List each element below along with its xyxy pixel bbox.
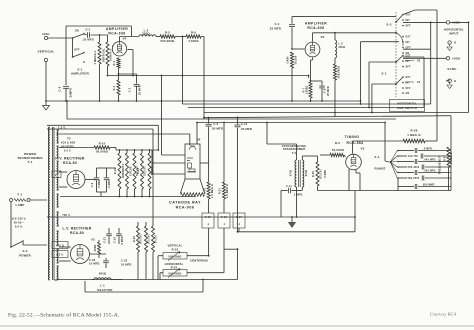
svg-text:R-10: R-10 [99, 141, 106, 145]
svg-text:R-32: R-32 [172, 248, 179, 252]
svg-text:.05 MFD: .05 MFD [211, 127, 223, 131]
svg-text:S-5: S-5 [22, 249, 27, 253]
svg-text:RANGE: RANGE [374, 167, 385, 171]
svg-text:C-19: C-19 [113, 237, 116, 243]
svg-text:C-21: C-21 [103, 237, 106, 243]
svg-text:.5 MFD: .5 MFD [325, 169, 327, 178]
svg-text:100-750: 100-750 [408, 155, 419, 158]
svg-text:Fig. 22-52.—Schematic of RCA M: Fig. 22-52.—Schematic of RCA Model 155-A… [8, 312, 120, 319]
svg-text:800Ω: 800Ω [306, 170, 308, 176]
svg-text:C-6: C-6 [91, 182, 94, 187]
capacitor C-4 [289, 24, 295, 26]
svg-text:.25MFD: .25MFD [69, 88, 73, 98]
svg-text:1,500Ω: 1,500Ω [306, 85, 309, 94]
svg-text:V1: V1 [55, 173, 59, 177]
svg-text:V3: V3 [360, 147, 364, 151]
svg-text:T-1: T-1 [28, 160, 33, 164]
svg-text:690Ω: 690Ω [94, 245, 97, 252]
bus wire y104 [183, 103, 431, 105]
svg-text:500,000Ω: 500,000Ω [168, 271, 181, 275]
svg-text:RCA-80: RCA-80 [63, 161, 77, 165]
resistor R-4 [117, 80, 120, 95]
svg-text:16 MFD.: 16 MFD. [121, 262, 132, 266]
bus wire y112 [204, 112, 469, 114]
svg-text:500Ω: 500Ω [291, 170, 293, 176]
svg-text:750 V.: 750 V. [62, 213, 71, 217]
svg-text:RCA-80: RCA-80 [70, 231, 84, 235]
wire V5 cathode [312, 58, 314, 61]
svg-text:CENTERING: CENTERING [190, 259, 208, 263]
resistor R-17 divider [149, 150, 151, 153]
wire heater bus join [308, 75, 310, 77]
svg-text:250,000: 250,000 [144, 166, 146, 176]
bus wire y122 [197, 122, 385, 124]
wires HV rectifier [59, 171, 67, 173]
svg-text:C-10: C-10 [241, 122, 248, 126]
svg-text:8 MFD.: 8 MFD. [121, 235, 124, 244]
svg-text:AMPLIFIER: AMPLIFIER [305, 22, 327, 26]
svg-text:G: G [454, 41, 456, 45]
svg-text:500,000: 500,000 [320, 169, 322, 179]
svg-text:1.5 V.: 1.5 V. [58, 125, 66, 129]
inductor L-1 reactor [92, 279, 94, 281]
wire heater bus y75 [133, 75, 309, 77]
resistor R-22 [152, 222, 154, 226]
wires T-2 [266, 123, 268, 145]
ground solid middle [291, 217, 293, 222]
svg-text:L-1: L-1 [100, 284, 105, 288]
svg-text:.05 MFD: .05 MFD [240, 127, 252, 131]
resistor R-7 cathode [309, 82, 312, 98]
wire V5 plate to S-2 [312, 33, 314, 42]
wire right vertical input join [468, 22, 470, 112]
svg-text:C-16: C-16 [221, 216, 228, 219]
svg-text:POWER: POWER [19, 254, 32, 258]
svg-text:R-30: R-30 [203, 188, 206, 194]
svg-text:6C6 & 6D6: 6C6 & 6D6 [61, 142, 76, 145]
cap bank bottom bus [398, 190, 451, 192]
capacitor C-5 cathode bypass [310, 80, 312, 82]
wire plate chain down [201, 36, 204, 38]
crt grid electrodes [187, 157, 193, 159]
svg-text:25 MFD: 25 MFD [139, 85, 142, 95]
wire S-3 lower pivot to bus [372, 83, 396, 85]
svg-text:.1 MFD.: .1 MFD. [293, 193, 303, 196]
svg-text:T-2: T-2 [292, 151, 297, 155]
svg-text:1 MEG Ω: 1 MEG Ω [407, 133, 421, 137]
svg-text:6.3 V.: 6.3 V. [64, 150, 72, 153]
capacitor C-15 box [202, 213, 214, 228]
wire crt top lead [196, 123, 198, 145]
potentiometer R-6 horizontal gain [291, 52, 294, 68]
bus wire y125 left [47, 124, 158, 126]
capacitor C-11 [288, 188, 290, 194]
svg-text:500,000: 500,000 [149, 234, 151, 244]
tube V2 LV rectifier [71, 245, 90, 264]
wire bottom return [238, 231, 356, 233]
svg-text:HORIZONTAL: HORIZONTAL [397, 101, 417, 105]
svg-text:S-2: S-2 [386, 23, 391, 27]
wire 1.5V tap to CRT top cap [57, 133, 190, 135]
svg-text:LAMP: LAMP [16, 203, 25, 207]
svg-text:C-20: C-20 [89, 258, 96, 262]
vertical riser x161 [161, 76, 163, 156]
svg-text:L.V. RECTIFIER: L.V. RECTIFIER [63, 227, 92, 231]
wire C-15 column down to centering [208, 228, 210, 256]
terminal HORIZONTAL INPUT high [446, 21, 449, 24]
svg-text:R-26: R-26 [410, 129, 417, 133]
svg-text:INT: INT [406, 20, 411, 22]
capacitor C-7 filter [106, 168, 108, 177]
svg-text:600Ω: 600Ω [99, 272, 106, 276]
capacitor C-3 cathode bypass [118, 73, 120, 75]
capacitor C-9 coupling to CRT plate [208, 118, 210, 124]
capacitor C-16 box [218, 213, 230, 228]
svg-text:250Ω: 250Ω [339, 46, 346, 49]
capacitor C-22 16MFD [105, 258, 107, 260]
wire V3 plate up [352, 141, 354, 154]
bus wire y107 [188, 107, 424, 109]
svg-text:REACTOR: REACTOR [97, 288, 112, 292]
wire V4 plate [119, 37, 121, 42]
svg-text:.003 MFD.: .003 MFD. [424, 170, 437, 173]
svg-text:F-1: F-1 [18, 193, 23, 197]
switch S-5 power [10, 202, 12, 247]
svg-text:G: G [454, 79, 456, 83]
potentiometer R-13 focus [134, 150, 136, 153]
resistor R-8 plate load [334, 58, 336, 64]
svg-text:50,000Ω: 50,000Ω [96, 150, 109, 154]
capacitor C-1 [84, 34, 87, 35]
bus wire y119 [67, 118, 396, 120]
bus wire y116 sloped [204, 116, 451, 118]
svg-text:V6: V6 [196, 138, 200, 142]
svg-text:.5 MFD: .5 MFD [98, 179, 101, 188]
svg-text:FREQUENCY: FREQUENCY [438, 156, 442, 174]
svg-text:HORIZONTAL: HORIZONTAL [165, 262, 184, 266]
svg-text:.1: .1 [238, 223, 241, 226]
svg-text:.1: .1 [207, 223, 210, 226]
svg-text:0.6 A.: 0.6 A. [15, 225, 23, 229]
svg-text:V5: V5 [320, 35, 324, 39]
svg-text:.5 MFD: .5 MFD [108, 179, 111, 188]
resistor R-16 divider [141, 150, 143, 153]
svg-text:INT: INT [406, 83, 411, 85]
svg-text:R-9: R-9 [335, 141, 340, 145]
svg-text:R-20: R-20 [133, 236, 136, 242]
svg-text:16 MFD.: 16 MFD. [89, 262, 100, 266]
inductor L-3 [335, 40, 337, 58]
svg-text:TIMING: TIMING [345, 135, 360, 139]
wire S-2 ext to bus [403, 10, 415, 15]
wire V4 right pin to heater bus [128, 49, 134, 51]
svg-text:EXT: EXT [406, 37, 411, 39]
timing capacitor row .003 [398, 172, 414, 174]
svg-text:RCA-906: RCA-906 [176, 206, 195, 210]
svg-text:INTENSITY: INTENSITY [122, 164, 125, 178]
svg-text:V2: V2 [91, 238, 95, 242]
svg-text:R-33: R-33 [171, 266, 178, 270]
svg-text:V3: V3 [417, 82, 421, 84]
svg-text:AMPLIFIER: AMPLIFIER [106, 27, 128, 31]
svg-text:H3: H3 [417, 61, 421, 63]
svg-text:HIGH: HIGH [453, 57, 461, 61]
svg-text:1.5 MEG Ω: 1.5 MEG Ω [211, 184, 214, 198]
trimmer row 580-2500 [398, 177, 407, 179]
svg-text:850 MMF.: 850 MMF. [423, 184, 435, 187]
svg-text:GAIN R-2: GAIN R-2 [109, 48, 112, 61]
wire S-2 int to HIGH terminal [403, 21, 446, 23]
svg-text:CATHODE RAY: CATHODE RAY [169, 201, 201, 205]
svg-text:ON: ON [75, 30, 79, 33]
svg-text:VERTICAL: VERTICAL [102, 48, 105, 62]
wire C-16 column down [223, 228, 225, 249]
svg-text:RCA-606: RCA-606 [307, 26, 324, 30]
svg-text:R-3: R-3 [113, 60, 116, 65]
svg-text:110-130 V.: 110-130 V. [12, 217, 27, 221]
svg-text:FOCUS: FOCUS [129, 166, 132, 176]
svg-text:.5 MFD.: .5 MFD. [423, 148, 433, 151]
svg-text:V4: V4 [122, 37, 126, 41]
svg-text:RCA-606: RCA-606 [108, 32, 125, 36]
label box HORIZONTAL AMP SWITCH [390, 100, 425, 112]
svg-text:2.5 V.: 2.5 V. [56, 254, 64, 257]
resistor R-31 deflection return [223, 123, 225, 183]
svg-text:C-22: C-22 [121, 259, 128, 263]
resistor R-1 grid leak [99, 35, 101, 42]
capacitor C-2 [63, 85, 69, 87]
switch S-2 horizontal input selector [395, 12, 397, 97]
svg-text:GAIN: GAIN [287, 56, 290, 63]
wire S-2 lower to right [403, 48, 431, 50]
svg-text:R-6: R-6 [191, 31, 196, 35]
svg-text:C-17: C-17 [236, 216, 243, 219]
wire bus to range switch [384, 123, 386, 162]
svg-text:R-11: R-11 [114, 168, 117, 174]
svg-text:R-1: R-1 [93, 50, 97, 55]
wire input from S-2 to C-4 [292, 16, 396, 18]
resistor R-25 [317, 156, 319, 162]
svg-text:50,000: 50,000 [152, 166, 154, 175]
svg-text:C-11: C-11 [286, 185, 292, 188]
divider top bus [116, 149, 158, 151]
svg-text:S-1: S-1 [381, 72, 386, 76]
svg-text:50,000: 50,000 [156, 234, 158, 243]
svg-text:EXT: EXT [406, 56, 411, 58]
svg-text:TO: TO [67, 138, 71, 141]
timing capacitor row 850 MMF [398, 186, 414, 188]
svg-text:1 MEG Ω: 1 MEG Ω [450, 152, 453, 163]
wire L-3 top [334, 33, 336, 40]
resistor R-21 [145, 222, 147, 226]
svg-text:R-16: R-16 [137, 168, 140, 174]
svg-text:1 MEG: 1 MEG [93, 55, 97, 64]
svg-text:INT: INT [406, 42, 411, 44]
capacitor C-6 filter [96, 168, 98, 177]
svg-text:C-4: C-4 [274, 22, 279, 26]
svg-text:SYNC.: SYNC. [447, 67, 457, 71]
crt screen zigzag [181, 193, 205, 197]
wire S-3 pivot to bus [369, 61, 396, 63]
wire right vertical ext-sync [436, 10, 438, 141]
svg-text:R-27: R-27 [443, 155, 446, 161]
terminal vertical input ground [44, 58, 47, 61]
trimmer row 100-750 [398, 155, 407, 157]
svg-text:HEATERS: HEATERS [61, 146, 74, 149]
lower bus y217 [47, 216, 355, 218]
svg-text:.1: .1 [223, 223, 226, 226]
svg-text:50-60 ~: 50-60 ~ [14, 221, 25, 225]
transformer T-2 [295, 160, 297, 187]
wire sync high terminal [403, 57, 446, 59]
junction to lower bus [182, 36, 184, 38]
label V1 box [52, 171, 61, 178]
resistor R-9 grid [330, 153, 344, 156]
svg-text:500,000Ω: 500,000Ω [161, 39, 176, 43]
potentiometer R-12 intensity [126, 150, 128, 153]
wire C-17 stub [238, 228, 240, 232]
wire timing bottom [349, 190, 398, 192]
capacitor C-10 coupling horizontal [235, 124, 241, 126]
trimmer row 500-4000 [398, 166, 407, 168]
resistor R-3 cathode bias [118, 57, 120, 60]
power transformer T-1 secondaries [57, 130, 58, 143]
svg-text:VERTICAL: VERTICAL [167, 244, 182, 248]
svg-text:H.V. RECTIFIER: H.V. RECTIFIER [55, 157, 85, 161]
svg-text:S-4: S-4 [375, 155, 380, 159]
svg-text:EXT: EXT [406, 15, 411, 17]
wires to crt grid [157, 149, 159, 151]
svg-text:50,000Ω: 50,000Ω [332, 148, 345, 152]
svg-text:VERTICAL: VERTICAL [37, 50, 54, 54]
capacitor C-21 8MFD [108, 228, 110, 233]
svg-text:C-9: C-9 [214, 122, 219, 126]
svg-text:INT: INT [406, 61, 411, 63]
svg-text:C-3: C-3 [129, 87, 132, 92]
svg-text:.25 MFD: .25 MFD [269, 27, 281, 31]
capacitor C-19 8MFD [118, 228, 120, 233]
lower bus y292 [85, 291, 203, 293]
ground arrow [45, 101, 47, 106]
svg-text:4,500Ω: 4,500Ω [188, 39, 199, 43]
crt deflection plate leads [162, 154, 186, 156]
vertical riser x237 [237, 117, 239, 124]
svg-text:ON: ON [406, 93, 410, 95]
svg-text:30,000: 30,000 [295, 55, 298, 64]
resistor R-30 deflection return [207, 182, 210, 199]
wire V3 cathode down [348, 169, 350, 191]
svg-text:.25 MFD: .25 MFD [82, 38, 94, 42]
svg-text:OFF: OFF [74, 49, 80, 52]
wires LV rectifier [59, 246, 71, 248]
svg-text:R-4: R-4 [113, 85, 116, 90]
resistor R-14 [98, 240, 100, 242]
svg-text:250,000Ω: 250,000Ω [338, 66, 341, 79]
wire box1 right [131, 26, 133, 37]
svg-text:EXT: EXT [406, 77, 411, 79]
svg-text:TRANSFORMER: TRANSFORMER [283, 147, 305, 151]
timing capacitor C-1r row [398, 150, 414, 152]
svg-text:OFF: OFF [406, 26, 412, 28]
bottom rule [0, 325, 474, 327]
svg-text:500-4000: 500-4000 [408, 166, 420, 169]
svg-text:25 MFD: 25 MFD [327, 86, 330, 96]
resistor R-11 divider [119, 150, 121, 153]
timing capacitor row .045 [398, 161, 414, 163]
svg-text:R-5: R-5 [165, 31, 170, 35]
svg-text:500,000Ω: 500,000Ω [168, 254, 181, 258]
potentiometer R-2 vertical gain [107, 35, 109, 42]
svg-text:C-1: C-1 [85, 28, 90, 32]
svg-text:HIGH: HIGH [42, 33, 49, 36]
svg-text:580-2500: 580-2500 [408, 177, 420, 180]
crt heater [189, 147, 196, 151]
svg-text:Courtesy RCA: Courtesy RCA [430, 312, 457, 317]
svg-text:1.5 MEG Ω: 1.5 MEG Ω [226, 184, 229, 198]
wire box1 top [66, 25, 132, 27]
switch S-1 amplifier [72, 37, 74, 39]
svg-text:AMPLIFIER: AMPLIFIER [71, 72, 90, 76]
tube V1 HV rectifier [67, 171, 85, 189]
svg-text:OFF: OFF [406, 67, 412, 69]
svg-text:500,000: 500,000 [141, 234, 143, 244]
wire box1 left [65, 26, 67, 85]
svg-text:C-15: C-15 [205, 216, 212, 219]
svg-text:R-31: R-31 [218, 188, 221, 194]
label winding box B [52, 251, 68, 258]
lower bus y279 [58, 279, 238, 281]
svg-text:C-2: C-2 [58, 86, 62, 91]
svg-text:OFF: OFF [406, 88, 412, 90]
capacitor C-17 box [233, 213, 245, 228]
ground under horizontal input [447, 47, 452, 51]
terminal HORIZONTAL INPUT ground [448, 41, 451, 44]
ground under sync [447, 85, 452, 89]
power transformer T-1 primary [48, 127, 49, 280]
svg-text:R-25: R-25 [312, 171, 315, 177]
terminal sync ground [448, 79, 451, 82]
bus wire y129 left [47, 128, 153, 130]
tube V3 timing RCA-884 [346, 154, 362, 170]
resistor R-20 [137, 222, 139, 226]
svg-text:.045 MFD.: .045 MFD. [424, 159, 437, 162]
transformer bottom leads [54, 279, 58, 281]
label winding box A [52, 242, 68, 249]
wire S-2 contact to bus riser [361, 41, 400, 43]
svg-text:INPUT: INPUT [449, 32, 458, 36]
potentiometer R-27 frequency [447, 147, 450, 167]
ground bus wire [46, 100, 361, 102]
